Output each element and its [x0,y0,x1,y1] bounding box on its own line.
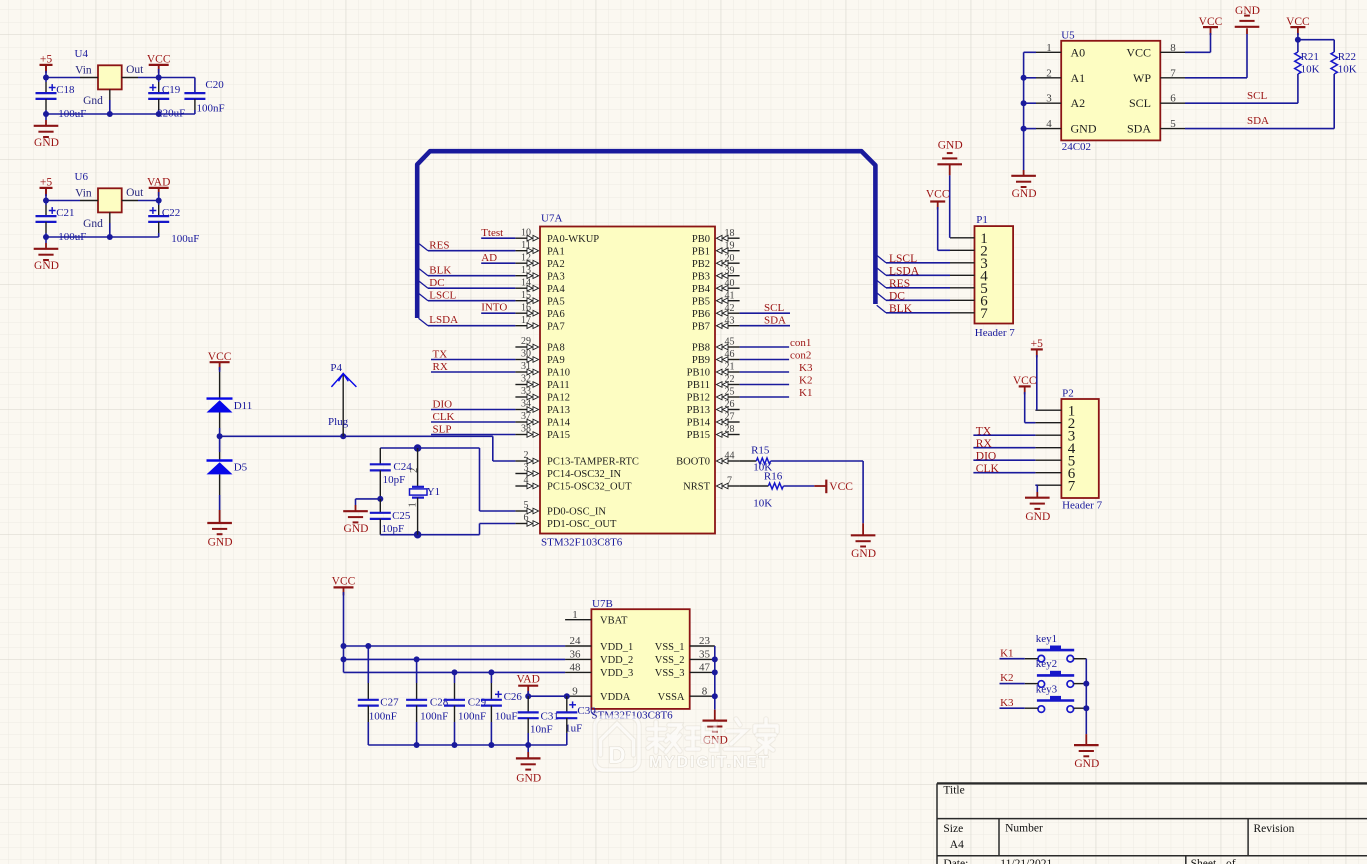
switch key1 [1036,633,1074,662]
svg-text:39: 39 [725,265,735,276]
svg-text:6: 6 [524,513,529,524]
svg-text:Y1: Y1 [427,486,440,498]
svg-text:40: 40 [725,278,735,289]
svg-text:key3: key3 [1036,683,1058,695]
wire [1021,52,1036,170]
wire [886,299,950,301]
svg-text:A0: A0 [1071,45,1086,59]
svg-text:key1: key1 [1036,633,1057,645]
net label K2 [799,375,812,387]
pin 4 [950,269,988,285]
svg-text:4: 4 [524,475,529,486]
svg-text:PB8: PB8 [692,343,710,354]
bus entry [419,318,429,326]
ic U5 24C02 [1061,30,1160,154]
svg-text:VCC: VCC [147,53,171,65]
wire [428,300,515,302]
svg-text:GND: GND [34,260,59,272]
wire [341,592,347,672]
ground GND [207,510,232,549]
pin PA6 pin 16 [515,302,564,319]
svg-text:19: 19 [725,240,735,251]
svg-text:VDD_1: VDD_1 [600,642,633,653]
svg-text:Gnd: Gnd [83,95,103,107]
svg-text:36: 36 [570,649,582,661]
svg-text:10pF: 10pF [383,474,406,486]
wire [740,346,790,348]
diode D5 [207,461,248,475]
pin VCC pin 8 [1126,42,1185,60]
svg-text:100nF: 100nF [420,710,448,722]
net label Ttest [481,227,503,239]
svg-text:Header 7: Header 7 [975,327,1016,339]
svg-text:10pF: 10pF [382,523,405,535]
wire [431,421,515,423]
svg-text:VAD: VAD [516,674,539,686]
wire [431,409,515,411]
svg-text:DC: DC [429,277,444,289]
wire [783,485,814,487]
ground GND [1011,170,1036,200]
svg-text:VSS_3: VSS_3 [655,668,685,679]
wire [43,71,80,81]
wire [380,444,479,452]
pin PA0-WKUP pin 10 [515,227,599,244]
svg-text:GND: GND [1235,5,1260,17]
net label RES [429,240,449,252]
svg-text:MYDIGIT.NET: MYDIGIT.NET [649,754,770,771]
svg-text:23: 23 [699,635,711,647]
svg-text:7: 7 [1068,478,1076,494]
svg-text:Out: Out [126,187,144,199]
svg-text:of: of [1226,858,1236,864]
pin 4 [1035,441,1075,457]
svg-text:RES: RES [889,278,910,290]
svg-text:R15: R15 [751,445,770,457]
svg-text:LSDA: LSDA [889,266,920,278]
svg-text:9: 9 [572,685,578,697]
capacitor C21 [36,201,87,243]
pin PD0-OSC_IN pin 5 [515,500,606,517]
svg-text:DC: DC [889,291,905,303]
svg-text:PA1: PA1 [547,246,565,257]
svg-text:RX: RX [976,438,993,450]
svg-text:Revision: Revision [1254,823,1295,835]
svg-text:NRST: NRST [683,482,710,493]
svg-text:K2: K2 [799,375,812,387]
wire [43,194,80,204]
net label SLP [433,424,452,436]
svg-text:10K: 10K [1338,64,1357,76]
svg-text:PA11: PA11 [547,380,570,391]
svg-text:con2: con2 [790,350,811,362]
pin VSS_1 pin 23 [655,635,715,653]
pin PB10 pin 21 [687,362,740,379]
svg-text:GND: GND [1074,758,1099,770]
svg-text:8: 8 [702,685,708,697]
svg-text:PB12: PB12 [687,393,710,404]
svg-text:4: 4 [1046,118,1052,130]
svg-text:12: 12 [521,252,531,263]
svg-text:PA2: PA2 [547,259,565,270]
wire [886,287,950,289]
svg-text:PA13: PA13 [547,405,570,416]
svg-text:SCL: SCL [1129,96,1151,110]
svg-text:Out: Out [126,64,144,76]
svg-text:VCC: VCC [1013,375,1037,387]
svg-text:U6: U6 [75,171,89,183]
svg-text:38: 38 [521,424,531,435]
pin VDD_3 pin 48 [565,662,633,680]
bus entry [419,281,429,289]
ground GND [1235,5,1260,34]
power port VCC [332,576,356,596]
svg-text:29: 29 [521,336,531,347]
wire [428,287,515,289]
svg-text:PA3: PA3 [547,271,565,282]
pin PB11 pin 22 [687,374,740,391]
svg-text:BOOT0: BOOT0 [676,457,710,468]
bus [417,151,875,318]
svg-text:VCC: VCC [926,189,950,201]
wire [428,275,515,277]
svg-text:SDA: SDA [1127,122,1151,136]
pin 7 [950,306,988,322]
wire [740,325,790,327]
svg-text:CLK: CLK [976,463,1000,475]
net label INTO [481,302,507,314]
svg-text:C25: C25 [392,510,411,522]
power port VCC [1199,16,1223,35]
svg-text:RES: RES [429,240,449,252]
svg-text:VCC: VCC [1199,16,1223,28]
svg-text:PB10: PB10 [687,368,710,379]
svg-text:R21: R21 [1301,51,1319,63]
svg-text:+5: +5 [40,176,52,188]
capacitor C19 [148,78,185,120]
svg-text:PB15: PB15 [687,430,710,441]
net label K1 [1000,647,1013,659]
svg-text:INTO: INTO [481,302,507,314]
svg-text:VDD_3: VDD_3 [600,668,633,679]
svg-text:Title: Title [943,785,964,797]
svg-text:PA14: PA14 [547,418,571,429]
net label K2 [1000,672,1013,684]
svg-text:LSCL: LSCL [429,290,456,302]
svg-text:PA9: PA9 [547,355,565,366]
pin 3 [950,256,988,272]
pin SDA pin 5 [1127,118,1185,136]
pin PB14 pin 27 [687,412,740,429]
svg-text:PA4: PA4 [547,284,565,295]
svg-text:U4: U4 [75,48,89,60]
connector P4 Plug [328,362,356,437]
pin A2 pin 3 [1036,93,1085,111]
wire [1000,683,1039,685]
svg-text:C21: C21 [56,207,74,219]
svg-text:SLP: SLP [433,424,452,436]
svg-text:14: 14 [521,277,531,288]
svg-text:2: 2 [409,468,420,473]
svg-text:A2: A2 [1071,96,1086,110]
pin 3 [1035,428,1075,444]
svg-text:PC13-TAMPER-RTC: PC13-TAMPER-RTC [547,457,639,468]
svg-text:10uF: 10uF [495,710,518,722]
pin 2 [950,244,988,260]
svg-text:PD1-OSC_OUT: PD1-OSC_OUT [547,519,617,530]
svg-text:13: 13 [521,265,531,276]
svg-text:C19: C19 [162,84,181,96]
svg-text:PC14-OSC32_IN: PC14-OSC32_IN [547,469,622,480]
svg-text:PB7: PB7 [692,321,710,332]
wire [973,434,1035,436]
pin PC14-OSC32_IN pin 3 [515,463,621,480]
wire [43,99,195,117]
wire [219,367,221,399]
pin WP pin 7 [1133,67,1185,85]
pin 1 [950,231,988,247]
svg-text:8: 8 [1170,42,1176,54]
bus entry [877,255,886,262]
wire [1185,128,1334,130]
ground GND [34,237,59,272]
svg-text:PB0: PB0 [692,234,710,245]
resistor R15 [740,445,773,474]
wire [1036,355,1038,410]
svg-text:PA10: PA10 [547,368,570,379]
pin VSS_3 pin 47 [655,662,715,680]
power port VCC [208,351,232,370]
svg-text:11: 11 [521,240,531,251]
pin 2 [1035,416,1075,432]
wire [138,192,162,204]
svg-text:33: 33 [521,386,531,397]
svg-text:+5: +5 [40,53,52,65]
svg-text:PA6: PA6 [547,309,565,320]
power port +5 [40,53,53,73]
svg-text:D: D [608,742,625,769]
net label SDA [764,315,786,327]
bus entry [419,243,429,251]
wire [368,706,567,748]
svg-text:7: 7 [1170,67,1176,79]
svg-text:VCC: VCC [1126,45,1151,59]
ground GND [1074,734,1099,770]
diode D11 [207,399,253,413]
ic U4 regulator [75,48,145,107]
svg-text:P1: P1 [976,214,988,226]
svg-text:46: 46 [725,349,735,360]
wire [886,312,950,314]
title block frame [937,783,1367,864]
power port VCC [926,189,950,210]
pin PD1-OSC_OUT pin 6 [515,513,617,530]
wire [938,207,950,250]
pin PB9 pin 46 [692,349,740,366]
wire [428,325,515,327]
wire [481,262,515,264]
power port +5 [40,176,53,196]
pin PC15-OSC32_OUT pin 4 [515,475,632,492]
wire [344,643,566,649]
svg-text:1: 1 [572,609,578,621]
wire [480,524,516,535]
svg-text:C31: C31 [541,710,559,722]
bus entry [877,305,886,313]
svg-text:GND: GND [344,523,369,535]
net label DIO [433,399,453,411]
svg-text:5: 5 [1170,118,1176,130]
capacitor C20 [184,79,224,114]
wire [1035,485,1037,492]
net label TX [433,349,448,361]
pin 5 [1035,453,1075,469]
svg-text:K2: K2 [1000,672,1013,684]
net label con1 [790,337,811,349]
net label RES [889,278,910,290]
svg-text:P4: P4 [330,362,342,374]
power port VAD [147,176,170,196]
wire [740,359,790,361]
resistor R21 [1295,40,1320,103]
svg-text:VCC: VCC [1286,16,1310,28]
power port VCC [147,53,171,73]
svg-text:28: 28 [725,424,735,435]
pin PA4 pin 14 [515,277,565,294]
svg-text:15: 15 [521,290,531,301]
net label LSCL [889,253,917,265]
power port VCC [1286,16,1310,35]
svg-text:DIO: DIO [976,450,996,462]
net label K3 [1000,697,1014,709]
pin PC13-TAMPER-RTC pin 2 [515,450,638,467]
svg-text:24C02: 24C02 [1062,141,1091,153]
pin PB15 pin 28 [687,424,740,441]
wire [740,312,790,314]
pin PA5 pin 15 [515,290,564,307]
svg-text:U7B: U7B [592,598,613,610]
wire [1295,33,1334,43]
wire [1185,102,1298,104]
svg-text:27: 27 [725,412,735,423]
svg-text:PB4: PB4 [692,284,711,295]
pin PB8 pin 45 [692,337,740,354]
svg-text:D11: D11 [234,400,253,412]
svg-text:100nF: 100nF [369,710,397,722]
wire [525,691,570,699]
svg-text:24: 24 [570,635,582,647]
wire [1185,34,1247,78]
svg-text:43: 43 [725,315,735,326]
svg-text:PA15: PA15 [547,430,570,441]
pin PB7 pin 43 [692,315,740,332]
svg-text:Size: Size [943,823,963,835]
net label LSDA [889,266,920,278]
net label DC [429,277,444,289]
svg-text:VBAT: VBAT [600,616,628,627]
svg-text:21: 21 [725,362,735,373]
connector P2 Header 7 [1061,388,1102,512]
pin A1 pin 2 [1036,67,1085,85]
svg-text:GND: GND [516,772,541,784]
wire [356,470,384,502]
svg-text:C20: C20 [205,79,224,91]
svg-text:U5: U5 [1061,30,1075,42]
wire [973,459,1035,461]
svg-text:1: 1 [1046,42,1052,54]
svg-text:LSDA: LSDA [429,314,458,326]
power port +5 [1031,338,1043,358]
wire [1185,33,1211,52]
power port VCC [1013,375,1037,394]
capacitor C22 [148,201,199,246]
svg-text:7: 7 [727,476,732,487]
ground GND [703,710,728,747]
svg-text:PA12: PA12 [547,393,570,404]
capacitor C27 [358,646,399,722]
pin PB6 pin 42 [692,303,740,320]
pin PB12 pin 25 [687,387,740,404]
svg-text:20: 20 [725,253,735,264]
svg-text:17: 17 [521,315,531,326]
bus entry [419,293,429,301]
svg-text:45: 45 [725,337,735,348]
wire [431,371,515,373]
svg-text:R22: R22 [1338,51,1356,63]
ground GND [1025,492,1050,523]
svg-text:GND: GND [208,537,233,549]
svg-text:3: 3 [524,463,529,474]
pin 1 [1035,403,1075,419]
capacitor C30 [556,696,596,734]
svg-text:TX: TX [976,425,992,437]
net label TX [976,425,992,437]
capacitor C31 [518,696,559,735]
ground GND [34,114,59,149]
pin A0 pin 1 [1036,42,1085,60]
wire [220,433,493,439]
wire [428,250,515,252]
pin GND pin 4 [1036,118,1097,136]
svg-text:SDA: SDA [1247,115,1269,127]
svg-text:10K: 10K [1301,64,1320,76]
wire [43,222,159,240]
svg-text:Vin: Vin [75,188,92,200]
switch key3 [1036,683,1074,712]
svg-text:C22: C22 [162,207,180,219]
svg-text:TX: TX [433,349,448,361]
svg-text:11/21/2021: 11/21/2021 [1000,858,1052,864]
svg-text:PB3: PB3 [692,271,710,282]
svg-text:DIO: DIO [433,399,453,411]
svg-text:2: 2 [1046,67,1052,79]
svg-text:37: 37 [521,411,531,422]
svg-text:PA0-WKUP: PA0-WKUP [547,234,599,245]
wire [1074,658,1087,660]
pin PB3 pin 39 [692,265,740,282]
wire [138,69,195,81]
net label BLK [889,303,913,315]
watermark logo MYDIGIT.NET [595,717,777,771]
pin PA1 pin 11 [515,240,564,257]
svg-text:RX: RX [433,361,448,373]
svg-text:R16: R16 [764,470,783,482]
svg-text:C18: C18 [56,84,75,96]
svg-text:100uF: 100uF [171,233,199,245]
svg-text:35: 35 [699,649,711,661]
wire [1000,658,1039,660]
svg-text:32: 32 [521,374,531,385]
